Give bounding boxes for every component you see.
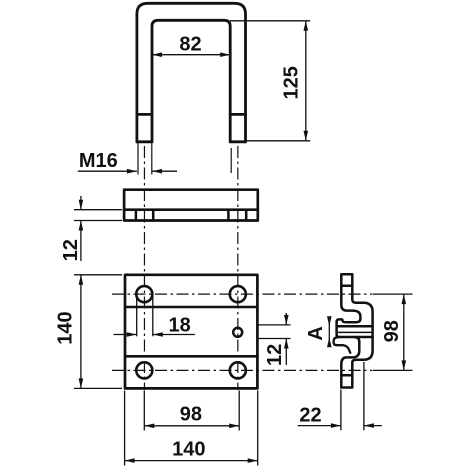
side plate right hole edge right bbox=[245, 210, 248, 221]
dim 22 ext right bbox=[363, 362, 365, 430]
arrow 125 top bbox=[304, 21, 309, 31]
dim M16 ext line right leg inner bbox=[230, 148, 232, 173]
svg-text:140: 140 bbox=[55, 311, 77, 344]
svg-text:M16: M16 bbox=[79, 150, 118, 172]
dim 12 right ext top bbox=[258, 324, 291, 326]
svg-text:18: 18 bbox=[168, 314, 190, 336]
dim 140 left ext top bbox=[74, 274, 122, 276]
arrow 140 left bottom bbox=[79, 378, 84, 388]
arrow 98 right bottom bbox=[402, 360, 407, 370]
dim M16 leader left bbox=[78, 170, 137, 172]
bracket slot top edge line bbox=[337, 325, 373, 328]
svg-text:98: 98 bbox=[180, 404, 202, 426]
bracket top tab inner line bbox=[341, 285, 352, 288]
arrow 22 right bbox=[364, 423, 374, 428]
dim 140 bottom ext left bbox=[124, 391, 126, 466]
arrow 140 left top bbox=[79, 275, 84, 285]
arrow M16 right bbox=[152, 169, 162, 174]
arrow 12 left top bbox=[79, 200, 84, 210]
dim M16 ext line left of left leg bbox=[137, 143, 139, 175]
front plate upper inner line bbox=[125, 306, 257, 309]
svg-text:125: 125 bbox=[281, 66, 303, 99]
dim 98 right ext bottom bbox=[373, 369, 413, 371]
arrow A down bbox=[327, 337, 332, 347]
svg-text:140: 140 bbox=[172, 438, 205, 460]
arrow 82 left bbox=[152, 52, 162, 57]
svg-text:A: A bbox=[305, 326, 327, 340]
dim 18 ext right bbox=[152, 294, 154, 336]
arrow A up bbox=[327, 316, 332, 326]
arrow 98 bottom left bbox=[144, 424, 154, 429]
hole top-left bbox=[136, 286, 152, 302]
dim M16 ext line right of left leg bbox=[151, 143, 153, 175]
dim 12 left ext top bbox=[74, 209, 122, 211]
bracket bottom tab inner line bbox=[341, 374, 352, 377]
side plate outline bbox=[124, 190, 258, 221]
dim 140 left ext bottom bbox=[74, 387, 122, 389]
dim M16 leader right bbox=[152, 170, 177, 172]
dim 22 ext left bbox=[340, 390, 342, 431]
centerline right leg bbox=[237, 146, 239, 390]
centerline left leg bbox=[143, 146, 145, 390]
svg-text:98: 98 bbox=[381, 320, 403, 342]
dim 98 bottom line bbox=[144, 425, 239, 427]
dim 82 line bbox=[152, 54, 230, 56]
dim 12 left line bbox=[80, 196, 82, 261]
dim 125 ext bottom bbox=[246, 140, 311, 142]
dim 98 bottom ext left bbox=[143, 391, 145, 431]
u-bolt left leg bottom bbox=[137, 140, 152, 143]
svg-text:82: 82 bbox=[179, 34, 201, 56]
side plate left hole edge left bbox=[135, 210, 138, 221]
dim 140 bottom ext right bbox=[257, 391, 259, 466]
arrow 125 bottom bbox=[304, 131, 309, 141]
dim A line bbox=[328, 318, 330, 346]
dim 18 ext left bbox=[136, 294, 138, 336]
side plate right hole edge left bbox=[227, 210, 230, 221]
arrow 12 right top bbox=[284, 315, 289, 325]
dim 12 left ext bottom bbox=[74, 220, 122, 222]
arrow 12 left bottom bbox=[79, 221, 84, 231]
dim 12 right line bbox=[285, 313, 287, 365]
arrow 98 bottom right bbox=[229, 424, 239, 429]
svg-text:12: 12 bbox=[264, 344, 286, 366]
u-bolt inner contour bbox=[152, 20, 230, 142]
u-bolt right leg thread top line bbox=[230, 113, 245, 116]
bracket slot bottom edge line right part bbox=[354, 336, 373, 339]
side plate left hole edge right bbox=[152, 210, 155, 221]
dim 22 line right bbox=[364, 425, 382, 427]
dim 98 bottom ext right bbox=[238, 391, 240, 431]
dim 125 line bbox=[305, 21, 307, 141]
dim 18 line left bbox=[114, 334, 137, 336]
front plate outline bbox=[125, 275, 257, 389]
arrow 12 right bottom bbox=[284, 339, 289, 349]
bracket silhouette fill bbox=[337, 274, 373, 387]
dim 140 left line bbox=[80, 275, 82, 389]
arrow M16 left bbox=[127, 169, 137, 174]
dim 140 bottom line bbox=[125, 460, 258, 462]
dim 18 line right bbox=[153, 334, 195, 336]
arrow 98 right top bbox=[402, 294, 407, 304]
small hole bbox=[233, 328, 242, 337]
side plate inner line bbox=[124, 208, 258, 211]
front plate lower inner line bbox=[125, 355, 257, 358]
hole bottom-right bbox=[230, 362, 246, 378]
bracket lower beak bbox=[334, 337, 351, 353]
dim 12 right ext bottom bbox=[258, 338, 291, 340]
dim 98 right ext top bbox=[373, 293, 413, 295]
centerline bottom hole row bbox=[112, 369, 372, 371]
bracket slot tongue thin line bbox=[339, 331, 372, 333]
arrow 18 left bbox=[127, 332, 137, 337]
arrow 18 right bbox=[153, 332, 163, 337]
arrow 22 left bbox=[331, 423, 341, 428]
arrow 140 bottom left bbox=[125, 458, 135, 463]
dim 98 right line bbox=[403, 294, 405, 370]
arrow 140 bottom right bbox=[248, 458, 258, 463]
u-bolt right leg bottom bbox=[230, 140, 245, 143]
u-bolt left leg thread top line bbox=[137, 113, 152, 116]
centerline top hole row bbox=[112, 293, 372, 295]
dim 125 ext top bbox=[230, 20, 310, 22]
dim 22 line left bbox=[298, 425, 341, 427]
hole bottom-left bbox=[136, 362, 152, 378]
svg-text:12: 12 bbox=[60, 239, 82, 261]
svg-text:22: 22 bbox=[299, 405, 321, 427]
hole top-right bbox=[230, 286, 246, 302]
u-bolt outer contour bbox=[137, 3, 246, 142]
arrow 82 right bbox=[220, 52, 230, 57]
